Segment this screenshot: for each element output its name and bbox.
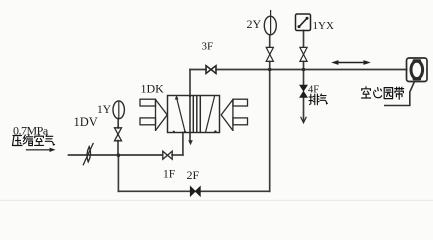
svg-text:1F: 1F — [163, 169, 175, 181]
svg-text:1DK: 1DK — [141, 82, 165, 96]
svg-text:1Y: 1Y — [97, 104, 112, 116]
svg-text:2F: 2F — [187, 168, 200, 182]
svg-text:1DV: 1DV — [74, 115, 98, 129]
svg-text:1YX: 1YX — [313, 20, 334, 32]
svg-text:2Y: 2Y — [247, 17, 262, 31]
svg-text:3F: 3F — [202, 41, 214, 53]
